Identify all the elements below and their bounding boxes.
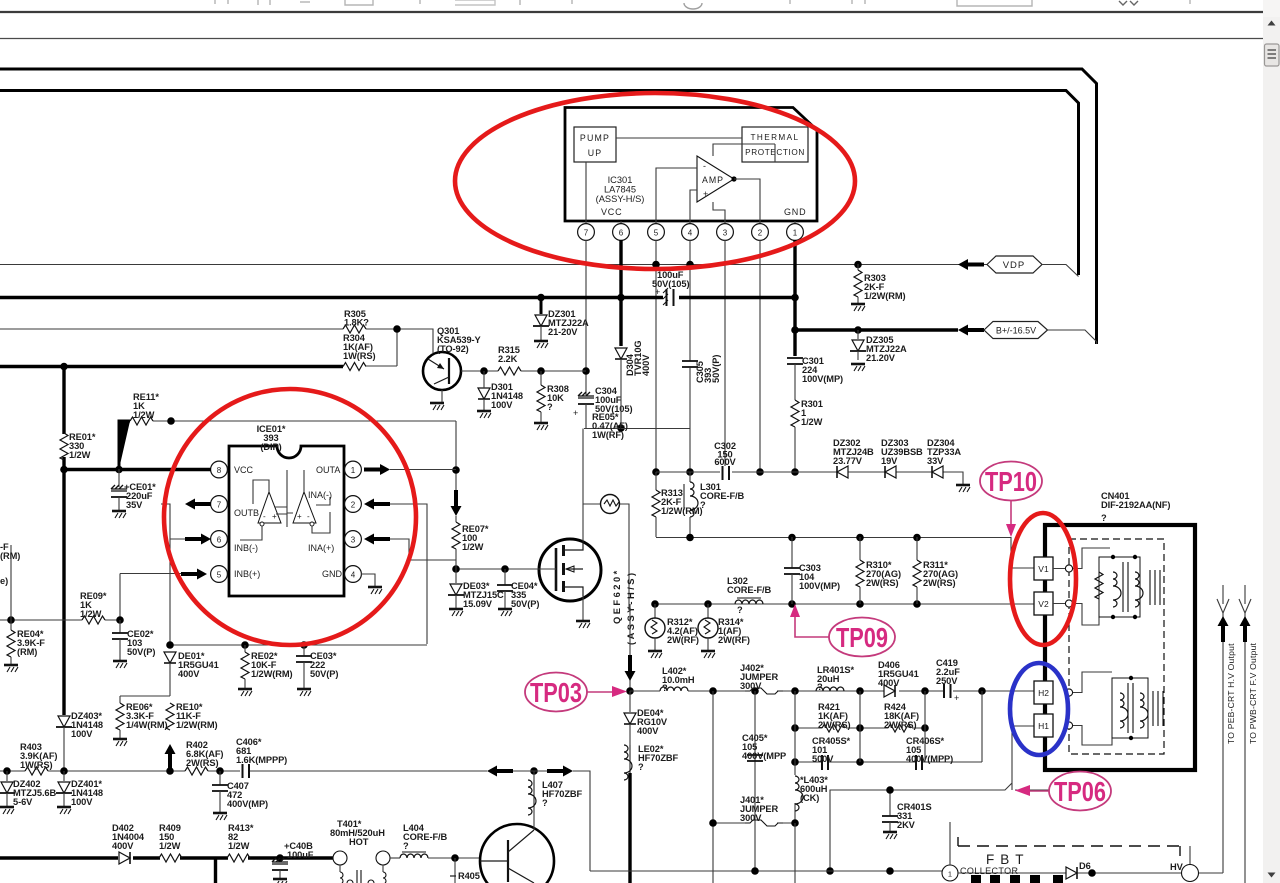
svg-text:500V: 500V	[812, 754, 834, 764]
resistor R311 270(AG) 2W(RS)	[913, 537, 958, 604]
red highlight ellipse around V1 V2	[1010, 513, 1076, 645]
bold arrow out of pin7	[185, 499, 211, 510]
op-amp B (right, INA)	[293, 492, 316, 526]
node DZ301 on bus	[537, 294, 545, 302]
svg-text:400V(MPP): 400V(MPP)	[906, 754, 953, 764]
svg-text:2KV: 2KV	[897, 820, 916, 830]
svg-text:6: 6	[217, 536, 222, 545]
red highlight ellipse around IC301	[455, 93, 855, 269]
resistor RE07 100 1/2W	[452, 522, 489, 569]
wire pin2 vertical	[759, 240, 761, 472]
svg-text:400V: 400V	[178, 669, 200, 679]
zener DZ402 MTZJ5.6B 5-6V	[0, 771, 56, 814]
vertical transformer T-H (bottom)	[1112, 676, 1163, 740]
resistor R308 10K	[534, 371, 569, 430]
svg-text:?: ?	[700, 500, 706, 510]
svg-text:TP09: TP09	[836, 622, 888, 653]
svg-text:23.77V: 23.77V	[833, 456, 863, 466]
node y620 CE02	[116, 616, 124, 624]
svg-text:VCC: VCC	[234, 465, 254, 475]
node pin1 bus joint	[791, 294, 799, 302]
svg-text:INB(+): INB(+)	[234, 569, 260, 579]
svg-text:1: 1	[351, 466, 356, 475]
svg-text:1/2W(RM): 1/2W(RM)	[864, 291, 906, 301]
op-amp A (left, OUTB)	[258, 492, 281, 526]
FBT dashed boundary	[958, 845, 1180, 847]
transistor H-OUT (bottom, partially cut)	[480, 824, 554, 883]
pin 1 OUTA	[316, 461, 361, 478]
svg-text:35V: 35V	[126, 500, 143, 510]
node TP03	[626, 687, 634, 695]
node RE11/pin rail	[167, 417, 175, 425]
wire gate line	[456, 568, 556, 570]
wires V1/V2 to transformer	[1053, 548, 1110, 625]
svg-text:5: 5	[654, 229, 659, 238]
svg-text:+: +	[655, 287, 660, 297]
scrollbar	[1263, 0, 1280, 883]
wire Q301 collector to R315	[461, 370, 498, 372]
resistor R424 18K(AF) 2W(RS)	[884, 702, 919, 732]
svg-text:+: +	[703, 189, 708, 199]
capacitor CE04 335 50V(P)	[497, 569, 539, 616]
wire TP06 line from H1	[830, 726, 1049, 871]
wire pin7 net	[159, 504, 185, 645]
svg-text:6: 6	[619, 229, 624, 238]
svg-text:5: 5	[217, 571, 222, 580]
svg-text:(RM): (RM)	[17, 647, 37, 657]
node R315/R308	[537, 367, 545, 375]
test point TP10	[980, 462, 1042, 538]
node pin2 y472	[756, 468, 764, 476]
svg-text:400V: 400V	[637, 726, 659, 736]
node x64 on R304 bus	[60, 363, 68, 371]
svg-text:PUMP: PUMP	[580, 133, 610, 143]
svg-text:?: ?	[662, 683, 668, 693]
svg-text:50V(P): 50V(P)	[511, 599, 539, 609]
svg-text:100uF: 100uF	[287, 850, 314, 860]
test point TP03	[525, 673, 627, 712]
svg-text:UP: UP	[588, 148, 603, 158]
inductor L403 600uH (CK)	[795, 775, 828, 811]
diode DZ403 1N4148 100V	[56, 711, 103, 771]
svg-text:?: ?	[542, 798, 548, 808]
svg-text:CORE-F/B: CORE-F/B	[727, 585, 772, 595]
pin 3	[717, 221, 734, 240]
svg-text:GND: GND	[322, 569, 343, 579]
capacitor C305 (vertical label)	[682, 355, 721, 383]
open contacts on terminals	[1065, 565, 1072, 729]
inductor L402 10.0mH	[660, 666, 695, 693]
svg-text:1/4W(RM): 1/4W(RM)	[126, 720, 168, 730]
svg-text:TO PWB-CRT F.V Output: TO PWB-CRT F.V Output	[1248, 642, 1258, 744]
thick stub down x215	[214, 858, 217, 883]
capacitor C405 105 400V(MPP	[742, 733, 786, 761]
PUMP UP box	[574, 127, 616, 162]
terminal H2	[1034, 681, 1053, 704]
svg-text:19V: 19V	[881, 456, 898, 466]
svg-text:HOT: HOT	[349, 837, 369, 847]
svg-text:+: +	[954, 693, 959, 703]
bold arrow PWB-CRT	[1240, 616, 1251, 642]
wire pin5 vertical	[655, 240, 657, 472]
wire pin5 net	[120, 574, 181, 621]
svg-text:+: +	[297, 512, 302, 521]
svg-text:TP10: TP10	[985, 466, 1037, 497]
svg-text:400V: 400V	[112, 841, 134, 851]
svg-text:V2: V2	[1038, 599, 1049, 609]
terminal V1	[1034, 557, 1053, 580]
VDP hexagon label	[987, 256, 1079, 277]
capacitor C407 472 400V(MP)	[212, 771, 268, 820]
bold arrow into pin6	[185, 534, 211, 545]
wire pin7 vertical	[585, 240, 587, 395]
svg-text:100V(MP): 100V(MP)	[802, 374, 843, 384]
node pin5 on VDP net	[652, 261, 660, 269]
B+/-16.5V hexagon label	[984, 322, 1097, 345]
resistor R409 150 1/2W	[159, 823, 182, 862]
capacitor CE02 103 50V(P)	[112, 620, 155, 668]
resistor R413 82 1/2W	[227, 823, 254, 862]
jumper J401 JUMPER 300V	[709, 795, 799, 827]
diode DZ401 1N4148 100V	[56, 771, 103, 814]
wire y728 line	[795, 727, 925, 729]
svg-text:IC301: IC301	[608, 175, 633, 185]
pin 4	[682, 221, 699, 240]
pin 6 INB(-)	[211, 531, 258, 553]
svg-text:1/2W(RM): 1/2W(RM)	[251, 669, 293, 679]
svg-text:5-6V: 5-6V	[13, 797, 33, 807]
blue highlight ellipse around H2 H1	[1010, 663, 1068, 755]
zener DZ302 MTZJ24B 23.77V	[833, 438, 874, 478]
svg-text:100V: 100V	[71, 729, 93, 739]
wire pin1 to RE07 node	[390, 469, 456, 471]
svg-text:QEF620*: QEF620*	[612, 568, 622, 624]
svg-text:600V: 600V	[714, 457, 736, 467]
svg-text:OUTA: OUTA	[316, 465, 340, 475]
svg-text:2W(RS): 2W(RS)	[186, 758, 218, 768]
wire pin3 vertical into C302	[724, 240, 726, 466]
label R405	[450, 871, 480, 881]
wires H2/H1 to transformer	[1073, 672, 1112, 745]
bold arrow up under RE10	[165, 744, 176, 770]
zener DZ305 MTZJ22A 21.20V	[850, 326, 907, 371]
capacitor CR406S 105 400V(MPP)	[906, 736, 953, 770]
wire RE11 top rail	[153, 420, 456, 422]
svg-text:FBT: FBT	[986, 852, 1030, 867]
svg-text:8: 8	[217, 466, 222, 475]
svg-text:2W(RF): 2W(RF)	[718, 635, 750, 645]
ferrite bead LE02 HF70ZBF	[624, 724, 679, 780]
CN401 connector box DIF-2192AA(NF)	[1045, 491, 1195, 770]
svg-text:2: 2	[351, 501, 356, 510]
svg-text:7: 7	[584, 229, 589, 238]
wire y645 line (DE01 rail)	[170, 644, 427, 646]
resistor R315 2.2K	[498, 345, 586, 375]
svg-text:100V(MP): 100V(MP)	[799, 581, 840, 591]
bottom rail y871	[590, 870, 942, 872]
pin 1	[787, 221, 804, 240]
capacitor CE03 222 50V(P)	[296, 645, 338, 696]
thick vertical from LE02 to bottom	[628, 773, 631, 883]
resistor RE05 0.47(AF) 1W(RF) circle style	[583, 412, 629, 610]
svg-text:100V: 100V	[491, 400, 513, 410]
resistor RE09 1K 1/2W	[80, 591, 107, 624]
zener DZ301 MTZJ22A 21-20V	[533, 297, 589, 348]
resistor R301 1 1/2W	[791, 399, 823, 472]
wire RE06/RE10 top rail	[120, 695, 170, 697]
svg-text:CORE-F/B: CORE-F/B	[403, 832, 448, 842]
transistor Q301 KSA539-Y (TO-92)	[423, 326, 482, 410]
bold arrow down at TP03	[625, 655, 636, 681]
test point TP09	[790, 604, 895, 657]
svg-text:H1: H1	[1038, 721, 1049, 731]
svg-text:-: -	[703, 161, 706, 171]
svg-text:100V: 100V	[71, 797, 93, 807]
B+/-16.5V bus from pin1	[795, 328, 958, 331]
node pin4 on VDP net	[686, 261, 694, 269]
svg-text:R405: R405	[458, 871, 480, 881]
diode D6	[1066, 861, 1096, 879]
node pin6 on main bus	[617, 294, 625, 302]
ground for DZ chain	[956, 485, 970, 492]
node base H-OUT	[451, 854, 459, 862]
capacitor CE01 220uF 35V	[111, 469, 156, 518]
MOSFET QE01 (ASSY-H/S)	[539, 504, 636, 645]
diode DE01 1R5GU41 400V	[164, 651, 219, 696]
node pin7/R315	[582, 367, 590, 375]
diode D301 1N4148 100V	[477, 371, 523, 418]
svg-text:300V: 300V	[740, 681, 762, 691]
pin 5 INB(+)	[211, 566, 261, 583]
svg-text:1: 1	[948, 870, 952, 879]
vertical nets x795 x860 x925 x713 x755 x982	[713, 691, 982, 883]
thick vertical x64 rail	[62, 367, 65, 716]
svg-text:1/2W: 1/2W	[69, 450, 91, 460]
wire y537 line (to TP10/V1)	[656, 538, 1034, 569]
pin 7	[578, 221, 595, 240]
pin 5	[648, 221, 665, 240]
wire pin3	[390, 539, 456, 560]
node VCC rail joints	[115, 466, 123, 474]
cut-off labels at left edge	[0, 542, 20, 586]
svg-text:2.2K: 2.2K	[498, 354, 518, 364]
svg-text:1.6K(MPPP): 1.6K(MPPP)	[236, 755, 287, 765]
svg-text:2W(RS): 2W(RS)	[818, 720, 850, 730]
svg-text:2W(RS): 2W(RS)	[923, 578, 955, 588]
page top rule	[0, 38, 1263, 40]
pin 3 INA(+)	[308, 531, 361, 553]
pin 2	[752, 221, 769, 240]
svg-text:INA(+): INA(+)	[308, 543, 334, 553]
main B+ bus y297	[0, 296, 795, 299]
svg-text:1/2W: 1/2W	[133, 410, 155, 420]
resistor R312 4.2(AF) 2W(RF) circle style	[645, 604, 699, 658]
resistor R402 6.8K(AF) 2W(RS)	[185, 740, 223, 775]
wire into TP03 node from above	[629, 604, 631, 691]
svg-text:(TO-92): (TO-92)	[437, 344, 469, 354]
svg-text:D6: D6	[1079, 861, 1091, 871]
bold arrow into pin3	[364, 534, 390, 545]
svg-text:1/2W: 1/2W	[801, 417, 823, 427]
wire RE07 feed	[455, 421, 457, 522]
pin 6	[613, 221, 630, 240]
svg-text:VDP: VDP	[1003, 260, 1026, 271]
svg-text:1.8K?: 1.8K?	[344, 318, 369, 328]
red highlight ellipse around ICE01	[164, 389, 416, 645]
svg-text:3: 3	[723, 229, 728, 238]
capacitor C419 2.2uF 250V	[936, 658, 960, 703]
capacitor CR405S 101 500V	[812, 736, 851, 770]
inductor LR401S 20uH	[816, 665, 855, 692]
svg-text:(ASSY-H/S): (ASSY-H/S)	[596, 194, 645, 204]
transformer T401 80mH/520uH HOT	[330, 819, 390, 883]
schematic inner frame	[0, 91, 1079, 276]
series cap 100uF 50V(105) on bus	[652, 270, 689, 306]
wire y472 line	[656, 472, 963, 484]
svg-text:HF70ZBF: HF70ZBF	[542, 789, 583, 799]
svg-text:21-20V: 21-20V	[548, 327, 578, 337]
wires inside ICE01	[240, 470, 330, 540]
bold arrow down to RE07	[451, 490, 462, 516]
svg-text:(ASSY-H/S): (ASSY-H/S)	[626, 570, 636, 645]
zener DZ303 UZ39BSB 19V	[881, 438, 923, 478]
wire sub-line y428	[584, 428, 690, 430]
svg-text:15.09V: 15.09V	[463, 599, 493, 609]
capacitor C304	[573, 386, 632, 428]
wire pump-to-thermal	[586, 138, 742, 221]
node R301 y472	[791, 468, 799, 476]
capacitor C302 150 600V (series)	[714, 441, 736, 480]
resistor R313 2K-F 1/2W(RM)	[652, 472, 703, 537]
wire y762 line	[795, 761, 982, 763]
diode D406 1R5GU41 400V	[878, 660, 919, 697]
test point TP06	[1015, 772, 1111, 811]
wire x795 to bottom bus	[794, 823, 796, 883]
ICE01 IC box	[229, 424, 344, 596]
svg-text:-: -	[307, 512, 310, 521]
wire R305/R304 net to Q301 base	[366, 329, 433, 366]
svg-text:LA7845: LA7845	[604, 185, 636, 195]
resistor R310 270(AG) 2W(RS)	[856, 537, 901, 604]
resistor R304 1K(AF) 1W(RS)	[0, 333, 375, 371]
svg-text:VCC: VCC	[601, 207, 622, 217]
zener DZ304 TZP33A 33V	[927, 438, 961, 478]
inductor L301 CORE-F/B	[684, 472, 745, 537]
svg-text:OUTB: OUTB	[234, 508, 259, 518]
vertical transformer T-V (top)	[1095, 555, 1160, 619]
svg-text:2W(RF): 2W(RF)	[667, 635, 699, 645]
output lines to CRT	[1199, 613, 1245, 883]
svg-text:?: ?	[403, 841, 409, 851]
diode DE04 RG10V 400V	[624, 691, 668, 736]
capacitor C303 104 100V(MP)	[784, 537, 840, 604]
wire left stub x11	[10, 545, 12, 620]
bold arrow on VDP net	[958, 259, 984, 270]
svg-text:1W(RS): 1W(RS)	[20, 760, 52, 770]
svg-text:(CK): (CK)	[800, 793, 819, 803]
svg-text:HF70ZBF: HF70ZBF	[638, 753, 679, 763]
wire pin2 loop	[390, 504, 427, 644]
svg-text:250V: 250V	[936, 676, 958, 686]
pin 4 GND	[322, 566, 361, 583]
wire y604 line (to V2)	[655, 603, 1034, 605]
resistor RE10 11K-F 1/2W(RM)	[166, 702, 218, 730]
diode D304 TVR10G 400V	[615, 340, 651, 428]
open arrowheads	[1217, 585, 1251, 613]
svg-text:THERMAL: THERMAL	[751, 133, 800, 142]
wire y771 line	[0, 770, 487, 772]
svg-text:2W(RS): 2W(RS)	[884, 720, 916, 730]
svg-text:?: ?	[638, 762, 644, 772]
svg-text:?: ?	[547, 402, 553, 412]
IC301 name label	[596, 175, 645, 204]
svg-text:50V(P): 50V(P)	[127, 647, 155, 657]
svg-text:+: +	[272, 512, 277, 521]
svg-text:3: 3	[351, 536, 356, 545]
svg-text:DIF-2192AA(NF): DIF-2192AA(NF)	[1101, 500, 1170, 510]
wire: VDP net horizontal	[0, 264, 987, 266]
svg-text:INB(-): INB(-)	[234, 543, 258, 553]
inductor L404 CORE-F/B	[390, 823, 480, 858]
svg-text:1/2W: 1/2W	[80, 609, 102, 619]
bold arrow out of pin1	[364, 464, 390, 475]
svg-text:7: 7	[217, 501, 222, 510]
svg-text:4: 4	[688, 229, 693, 238]
node OUTA joint	[452, 466, 460, 474]
svg-text:50V(P): 50V(P)	[310, 669, 338, 679]
wire y620 line	[0, 619, 120, 621]
resistor R305 1.8K?	[0, 309, 369, 333]
bold arrow into pin2	[364, 499, 390, 510]
node D301	[480, 367, 488, 375]
pin 7 OUTB	[211, 496, 259, 518]
svg-text:INA(-): INA(-)	[308, 490, 332, 500]
svg-text:AMP: AMP	[702, 175, 724, 185]
svg-text:GND: GND	[784, 207, 806, 217]
capacitor CR401S 331 2KV	[882, 790, 932, 839]
svg-text:300V: 300V	[740, 813, 762, 823]
svg-text:TP03: TP03	[530, 677, 582, 708]
zener DE03 MTZJ15C 15.09V	[448, 569, 504, 616]
svg-text:1: 1	[793, 229, 798, 238]
resistor RE02 10K-F 1/2W(RM)	[238, 645, 293, 696]
IC301 outer box	[565, 108, 817, 222]
svg-text:?: ?	[817, 682, 823, 692]
svg-text:(RM): (RM)	[0, 551, 20, 561]
node R305/R304	[393, 325, 401, 333]
wires inside IC301	[656, 144, 775, 240]
svg-text:CORE-F/B: CORE-F/B	[700, 491, 745, 501]
svg-text:e): e)	[0, 576, 8, 586]
svg-text:400V(MPP: 400V(MPP	[742, 751, 786, 761]
svg-text:400V: 400V	[878, 678, 900, 688]
pin 2 INA(-)	[308, 490, 361, 512]
svg-text:1W(RS): 1W(RS)	[343, 351, 375, 361]
svg-text:1W(RF): 1W(RF)	[592, 430, 624, 440]
resistor R303 2K-F 1/2W(RM)	[851, 261, 906, 311]
op-amp AMP triangle U301	[697, 156, 737, 202]
wire pin4 vertical	[689, 240, 691, 472]
resistor RE01 330 1/2W on x64 rail	[60, 432, 96, 460]
svg-text:V1: V1	[1038, 564, 1049, 574]
resistor RE11 1K 1/2W	[119, 392, 159, 469]
bottom thick bus y858	[0, 856, 333, 859]
svg-text:33V: 33V	[927, 456, 944, 466]
svg-text:COLLECTOR: COLLECTOR	[960, 866, 1019, 876]
ferrite bead L407 HF70ZBF	[528, 771, 583, 824]
capacitor C301 224 100V(MP)	[787, 356, 843, 400]
svg-text:-: -	[263, 512, 266, 521]
